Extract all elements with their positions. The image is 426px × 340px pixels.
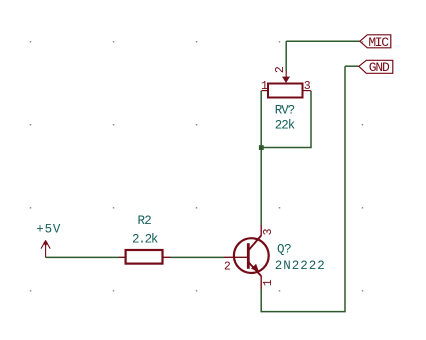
svg-text:R2: R2 <box>138 214 152 228</box>
svg-text:2N2222: 2N2222 <box>275 259 326 273</box>
svg-text:RV?: RV? <box>275 104 295 118</box>
svg-text:22k: 22k <box>275 119 295 133</box>
svg-text:1: 1 <box>262 279 275 286</box>
svg-text:3: 3 <box>304 80 311 93</box>
svg-text:3: 3 <box>262 228 275 235</box>
svg-text:1: 1 <box>261 80 268 93</box>
svg-text:MIC: MIC <box>368 35 389 50</box>
svg-text:Q?: Q? <box>277 243 291 257</box>
svg-text:+5V: +5V <box>36 223 61 237</box>
svg-text:2.2k: 2.2k <box>132 233 158 247</box>
svg-text:GND: GND <box>369 60 390 75</box>
svg-text:2: 2 <box>274 66 287 73</box>
svg-text:2: 2 <box>224 260 231 273</box>
